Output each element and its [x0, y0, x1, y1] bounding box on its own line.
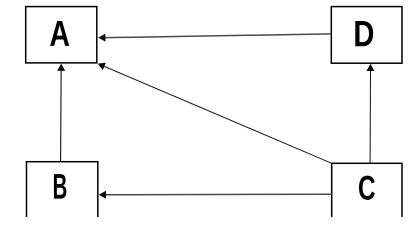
- label C: [359, 176, 375, 200]
- arrow from C to B: [99, 191, 332, 199]
- node C: [332, 163, 402, 220]
- node B: [27, 162, 98, 219]
- arrow from D to A: [98, 34, 331, 42]
- arrow from B to A: [57, 64, 65, 162]
- label D: [355, 21, 373, 46]
- node A: [26, 7, 97, 63]
- arrow from C to D: [366, 64, 374, 164]
- node D: [331, 7, 402, 64]
- label B: [54, 174, 66, 198]
- label A: [50, 21, 69, 46]
- arrow from C to A: [98, 63, 332, 164]
